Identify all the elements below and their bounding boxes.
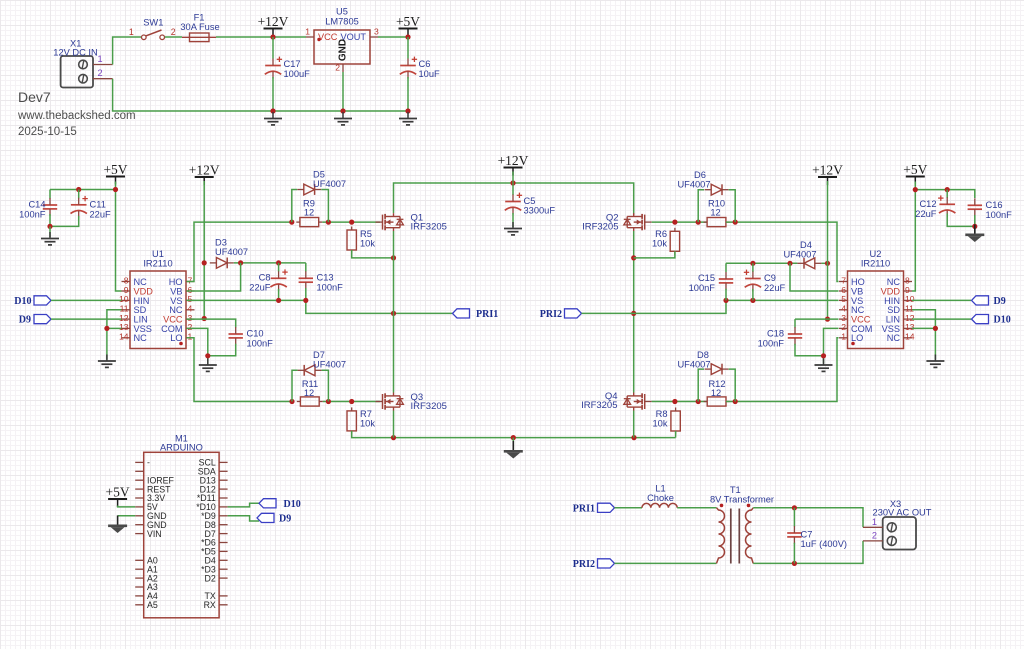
wire U1 HO to R9 xyxy=(187,222,291,281)
svg-text:NC: NC xyxy=(887,277,901,287)
capacitor C12 22uF xyxy=(938,195,955,217)
module M1 ARDUINO xyxy=(135,434,227,618)
wire C17 to ground rail xyxy=(272,77,274,111)
switch SW1 xyxy=(129,18,176,40)
ground (bridge rail) xyxy=(504,441,523,459)
ground (C6) xyxy=(399,112,417,125)
svg-text:IRF3205: IRF3205 xyxy=(411,401,447,412)
transformer T1 8V Transformer xyxy=(710,485,774,564)
wire C8 top lead xyxy=(278,263,280,272)
svg-text:R6: R6 xyxy=(655,229,667,239)
svg-text:12: 12 xyxy=(304,388,314,398)
svg-text:1: 1 xyxy=(305,27,310,37)
wire Arduino D9 to flag xyxy=(228,516,259,521)
wire Q4 gate to R12 xyxy=(652,401,707,403)
wire +12V vertical to U1 VCC xyxy=(203,181,205,319)
wire C6 to ground rail xyxy=(407,77,409,111)
junction C8 bottom xyxy=(276,298,281,303)
junction D5 cathode / R9 xyxy=(326,220,331,225)
diode D5 UF4007 xyxy=(297,184,321,195)
fuse F1 30A xyxy=(180,13,219,42)
svg-text:C6: C6 xyxy=(419,59,431,69)
wire bottom ground rail xyxy=(352,431,676,438)
wire D8 anode leg xyxy=(698,369,704,401)
junction D7 / R11 right xyxy=(326,399,331,404)
svg-text:+5V: +5V xyxy=(903,162,927,177)
wire U1 VSS to ground xyxy=(107,327,122,329)
capacitor C5 3300uF xyxy=(505,193,522,215)
junction VB tap xyxy=(238,260,243,265)
diode D3 UF4007 xyxy=(210,258,234,269)
svg-text:+12V: +12V xyxy=(189,163,220,178)
svg-text:8: 8 xyxy=(905,275,910,285)
svg-text:R5: R5 xyxy=(360,229,372,239)
svg-text:D10: D10 xyxy=(14,296,31,307)
power +5V (top) xyxy=(396,14,420,37)
svg-text:PRI1: PRI1 xyxy=(573,503,595,514)
node PRI1 (bridge left) xyxy=(453,309,499,320)
svg-text:GND: GND xyxy=(338,39,349,61)
node D9 (Arduino) xyxy=(257,513,291,524)
wire U2 HIN to D9 xyxy=(912,299,971,301)
ground (Arduino) xyxy=(108,516,127,534)
svg-text:100nF: 100nF xyxy=(247,339,274,349)
wire U2 LIN to D10 xyxy=(912,318,971,320)
svg-text:+5V: +5V xyxy=(396,14,420,29)
svg-text:VIN: VIN xyxy=(147,529,162,539)
svg-text:SW1: SW1 xyxy=(143,18,163,28)
junction R7 top xyxy=(349,399,354,404)
wire +5V down to U1 VDD xyxy=(116,182,122,292)
wire +12V vertical (right) xyxy=(827,181,829,319)
junction R6 top xyxy=(672,220,677,225)
wire D7 cathode leg xyxy=(292,370,298,401)
wire bootstrap caps to D4 xyxy=(726,262,797,264)
wire U1 VCC to C10 xyxy=(187,319,236,327)
svg-text:12: 12 xyxy=(711,388,721,398)
svg-text:1: 1 xyxy=(188,332,193,342)
svg-text:2: 2 xyxy=(335,63,340,73)
resistor R12 12 xyxy=(704,397,730,406)
wire U2 VS line xyxy=(726,299,839,301)
connector X1 12V DC IN xyxy=(53,39,112,88)
capacitor C9 22uF xyxy=(744,270,761,292)
svg-text:C16: C16 xyxy=(986,200,1003,210)
junction C9 bottom xyxy=(750,298,755,303)
wire U1 SD to ground xyxy=(107,310,122,360)
inductor L1 Choke xyxy=(642,484,677,508)
svg-text:D2: D2 xyxy=(205,573,216,583)
junction R5 top xyxy=(349,220,354,225)
wire C13 bottom lead xyxy=(305,288,307,300)
capacitor C16 100nF xyxy=(968,198,982,216)
wire C12 top lead xyxy=(946,190,948,198)
svg-text:C17: C17 xyxy=(284,59,301,69)
wire U2 COM to ground xyxy=(824,328,839,363)
wire C11 top lead xyxy=(78,190,80,199)
svg-text:1: 1 xyxy=(841,332,846,342)
diode D8 UF4007 xyxy=(705,364,729,375)
ground (U2 COM) xyxy=(815,359,833,372)
wire R11 to Q3 gate xyxy=(323,401,380,403)
junction +12V bus / C5 xyxy=(510,180,515,185)
svg-text:C18: C18 xyxy=(767,329,784,339)
capacitor C18 100nF xyxy=(788,327,802,345)
svg-text:10k: 10k xyxy=(360,419,375,429)
wire U1 COM to ground xyxy=(187,328,208,363)
capacitor C8 22uF xyxy=(270,269,287,291)
connector X3 230V AC OUT xyxy=(863,499,932,550)
diode D7 UF4007 xyxy=(298,365,322,376)
svg-text:2: 2 xyxy=(97,68,102,78)
svg-text:1uF (400V): 1uF (400V) xyxy=(801,539,848,549)
svg-text:NC: NC xyxy=(134,277,148,287)
junction C16 gnd xyxy=(972,224,977,229)
capacitor C6 10uF xyxy=(400,57,417,79)
ground (U5) xyxy=(334,112,352,125)
wire C9 bottom lead xyxy=(752,289,754,300)
svg-text:100nF: 100nF xyxy=(317,283,344,293)
junction R6 bottom xyxy=(631,255,636,260)
svg-text:D10: D10 xyxy=(284,499,301,510)
wire L1 to T1 primary xyxy=(677,507,716,509)
svg-text:C11: C11 xyxy=(90,200,106,210)
junction Q3 source / rail xyxy=(391,435,396,440)
wire Arduino GND to ground xyxy=(118,515,136,517)
svg-text:D9: D9 xyxy=(279,513,291,524)
capacitor C11 22uF xyxy=(71,196,88,218)
wire C7 top lead xyxy=(793,508,795,527)
svg-text:100nF: 100nF xyxy=(19,210,46,220)
transistor Q1 IRF3205 xyxy=(376,213,447,233)
wire D3 cathode to bootstrap caps xyxy=(234,262,306,264)
junction D4 cathode / +12V xyxy=(825,261,830,266)
svg-text:D9: D9 xyxy=(19,315,31,326)
junction COM / C10 xyxy=(205,353,210,358)
op-amp/driver U2 IR2110 xyxy=(839,249,915,349)
wire T1 secondary bottom to X3 xyxy=(753,541,863,564)
junction D3 anode xyxy=(202,260,207,265)
svg-text:LO: LO xyxy=(170,333,182,343)
svg-text:10k: 10k xyxy=(652,239,667,249)
svg-text:22uF: 22uF xyxy=(764,283,786,293)
svg-text:1: 1 xyxy=(129,27,134,37)
svg-text:2025-10-15: 2025-10-15 xyxy=(18,126,77,138)
svg-text:ARDUINO: ARDUINO xyxy=(160,443,203,453)
wire D9 to U1 LIN xyxy=(51,318,122,320)
svg-text:100nF: 100nF xyxy=(986,210,1013,220)
junction +5V node (right) xyxy=(913,187,918,192)
svg-text:C12: C12 xyxy=(919,199,936,209)
junction rail / C6 gnd xyxy=(405,108,410,113)
svg-text:D6: D6 xyxy=(694,170,706,180)
power +12V (C5) xyxy=(498,153,529,176)
svg-text:30A Fuse: 30A Fuse xyxy=(180,22,219,32)
wire U2 VSS to ground xyxy=(912,327,935,329)
svg-text:NC: NC xyxy=(134,333,148,343)
junction C8 top xyxy=(276,260,281,265)
svg-text:C10: C10 xyxy=(247,329,264,339)
svg-text:D5: D5 xyxy=(313,170,325,180)
wire C8 bottom lead xyxy=(278,289,280,300)
junction rail / C17 gnd xyxy=(270,108,275,113)
wire VB tap to U1 VB xyxy=(187,263,241,291)
svg-text:22uF: 22uF xyxy=(915,209,937,219)
svg-text:UF4007: UF4007 xyxy=(313,360,346,370)
wire Q3 drain up to PRI1 xyxy=(393,313,395,392)
svg-text:UF4007: UF4007 xyxy=(313,179,346,189)
svg-text:8V Transformer: 8V Transformer xyxy=(710,494,774,504)
junction VCC line (right) xyxy=(825,317,830,322)
svg-text:C8: C8 xyxy=(259,273,271,283)
capacitor C17 100uF xyxy=(265,57,282,79)
wire C18 bottom to COM gnd xyxy=(795,344,824,356)
wire Arduino D10 to flag xyxy=(228,503,259,507)
ground (U1 VSS) xyxy=(98,355,116,368)
junction Q4 source / rail xyxy=(631,435,636,440)
svg-text:D9: D9 xyxy=(994,296,1006,307)
svg-text:IRF3205: IRF3205 xyxy=(411,222,447,233)
wire +5V to C12/C16 tops xyxy=(915,190,975,198)
wire T1 secondary top to X3 xyxy=(753,508,863,528)
wire Q1 source down xyxy=(393,231,395,313)
svg-text:+5V: +5V xyxy=(103,162,127,177)
svg-text:3: 3 xyxy=(374,27,379,37)
svg-text:12V DC IN: 12V DC IN xyxy=(53,48,97,58)
wire F1 to U5 VCC via +12V node xyxy=(216,36,306,38)
resistor R7 10k xyxy=(347,407,356,434)
power +12V (U1 VCC) xyxy=(189,163,220,186)
ground (C5) xyxy=(504,222,522,235)
svg-text:UF4007: UF4007 xyxy=(215,247,248,257)
junction C7 top xyxy=(792,505,797,510)
power +5V (Arduino) xyxy=(106,485,130,508)
svg-text:U5: U5 xyxy=(336,7,348,17)
junction rail / U5 gnd xyxy=(340,108,345,113)
junction +12V / C17 xyxy=(270,34,275,39)
junction C11 top xyxy=(76,187,81,192)
resistor R6 10k xyxy=(670,228,679,255)
node D10 (right) xyxy=(972,315,1011,326)
svg-text:UF4007: UF4007 xyxy=(677,180,710,190)
svg-text:C9: C9 xyxy=(764,273,776,283)
svg-text:C15: C15 xyxy=(698,273,715,283)
transistor Q2 IRF3205 xyxy=(582,213,652,233)
op-amp/driver U1 IR2110 xyxy=(119,249,195,349)
ground (C12/C16) xyxy=(965,225,984,243)
regulator U5 LM7805 xyxy=(305,7,379,73)
svg-text:7: 7 xyxy=(841,275,846,285)
wire C13 top lead xyxy=(305,263,307,272)
wire rail to ground stem xyxy=(512,438,514,449)
wire U2 SD to ground xyxy=(912,310,935,360)
wire Q2 source / Q4 drain column xyxy=(633,231,635,393)
svg-text:A5: A5 xyxy=(147,600,158,610)
junction VB tap (right) xyxy=(787,261,792,266)
diode D4 UF4007 xyxy=(797,258,821,269)
svg-text:+5V: +5V xyxy=(106,485,130,500)
svg-text:NC: NC xyxy=(887,333,901,343)
junction SD/VSS (right) xyxy=(933,326,938,331)
wire C15 bottom lead xyxy=(725,289,727,301)
svg-text:C13: C13 xyxy=(317,273,334,283)
wire C14/C11 bottoms xyxy=(50,214,79,226)
power +5V (U2 VDD) xyxy=(903,162,927,185)
svg-text:C14: C14 xyxy=(28,200,45,210)
power +5V (U1 VDD) xyxy=(103,162,127,185)
wire C15 top lead xyxy=(725,263,727,272)
resistor R11 12 xyxy=(297,397,323,406)
svg-text:-: - xyxy=(147,458,150,468)
junction C9 top xyxy=(750,261,755,266)
junction C12 top xyxy=(945,187,950,192)
ground (C14/C11) xyxy=(41,232,59,245)
svg-text:U1: U1 xyxy=(152,249,164,259)
wire D6 cathode leg xyxy=(729,190,736,222)
svg-text:14: 14 xyxy=(119,332,129,342)
svg-text:IRF3205: IRF3205 xyxy=(582,222,618,233)
junction D5 anode / R9 xyxy=(289,220,294,225)
wire C14 top lead xyxy=(49,190,51,199)
wire PRI1 to L1 xyxy=(615,507,643,509)
wire R9 to Q1 gate xyxy=(322,221,380,223)
wire C9 top lead xyxy=(752,263,754,272)
wire to ground (C16) xyxy=(974,226,976,232)
junction D7 / R11 left xyxy=(289,399,294,404)
wire +5V down to C6 xyxy=(407,37,409,59)
svg-text:3300uF: 3300uF xyxy=(524,206,556,216)
svg-text:UF4007: UF4007 xyxy=(677,360,710,370)
junction R8 top xyxy=(672,399,677,404)
svg-text:22uF: 22uF xyxy=(90,210,112,220)
wire VB tap to U2 VB xyxy=(790,263,839,291)
wire U1 VS / PRI1 net xyxy=(187,300,453,313)
ground (U1 COM) xyxy=(199,359,217,372)
node D9 (right) xyxy=(972,296,1006,307)
svg-text:D8: D8 xyxy=(697,350,709,360)
junction C13 bottom xyxy=(303,298,308,303)
svg-text:10uF: 10uF xyxy=(419,69,441,79)
svg-text:22uF: 22uF xyxy=(249,283,271,293)
svg-text:12: 12 xyxy=(304,208,314,218)
junction D6 cathode / R10 xyxy=(733,220,738,225)
svg-text:PRI2: PRI2 xyxy=(540,309,562,320)
wire +5V down to U2 VDD xyxy=(912,182,915,292)
junction PRI2 node xyxy=(631,311,636,316)
wire D8 cathode leg xyxy=(729,369,736,401)
wire R5 bottom to Q1 source xyxy=(352,250,394,258)
wire to ground (C14) xyxy=(49,226,51,237)
junction COM / C18 (right) xyxy=(821,353,826,358)
transistor Q4 IRF3205 xyxy=(581,391,652,411)
wire X1 pin2 ground rail xyxy=(113,79,408,111)
svg-text:8: 8 xyxy=(124,275,129,285)
junction +5V / C6 xyxy=(405,34,410,39)
wire PRI2 to T1 primary xyxy=(615,562,717,564)
capacitor C10 100nF xyxy=(229,327,243,345)
svg-text:LM7805: LM7805 xyxy=(325,17,359,27)
junction Q1 source / Q3 drain / PRI1 xyxy=(391,311,396,316)
diode D6 UF4007 xyxy=(705,184,729,195)
wire D5 cathode leg xyxy=(321,190,328,223)
svg-text:2: 2 xyxy=(171,27,176,37)
wire U5 VOUT to +5V xyxy=(378,36,408,38)
svg-text:1: 1 xyxy=(872,517,877,527)
svg-text:1: 1 xyxy=(97,54,102,64)
wire C10 bottom to COM gnd xyxy=(208,344,236,356)
junction +5V node xyxy=(113,187,118,192)
wire X1 pin1 to SW1 xyxy=(113,37,141,65)
svg-text:D3: D3 xyxy=(215,238,227,248)
svg-text:IR2110: IR2110 xyxy=(143,259,172,269)
junction D6 anode / R10 xyxy=(696,220,701,225)
svg-text:+12V: +12V xyxy=(498,153,529,168)
junction C15 bottom xyxy=(723,298,728,303)
svg-text:www.thebackshed.com: www.thebackshed.com xyxy=(17,110,136,122)
wire C18 top lead xyxy=(794,319,796,327)
node D10 (Arduino) xyxy=(259,499,301,510)
wire D7 anode leg xyxy=(322,370,329,401)
node PRI2 (bridge right) xyxy=(540,309,582,320)
wire Q3 source to rail xyxy=(393,411,395,438)
node PRI1 (output) xyxy=(573,503,615,514)
capacitor C13 100nF xyxy=(299,271,313,289)
junction D8 cathode / R12 xyxy=(733,399,738,404)
wire +12V to C5 xyxy=(512,172,514,196)
svg-text:Choke: Choke xyxy=(647,493,674,503)
wire D5 anode leg xyxy=(292,190,297,223)
node D10 (left) xyxy=(14,296,51,307)
resistor R8 10k xyxy=(671,408,680,435)
svg-text:14: 14 xyxy=(905,332,915,342)
wire U2 VCC line xyxy=(795,318,839,320)
svg-text:F1: F1 xyxy=(194,13,205,23)
svg-text:VCC: VCC xyxy=(318,32,338,42)
wire U1 LO to R11 xyxy=(187,338,291,402)
svg-text:IR2110: IR2110 xyxy=(861,259,890,269)
wire R12 to U2 LO xyxy=(726,338,839,402)
resistor R5 10k xyxy=(347,227,356,254)
svg-text:230V AC OUT: 230V AC OUT xyxy=(873,508,932,518)
svg-text:R7: R7 xyxy=(360,409,372,419)
svg-text:PRI1: PRI1 xyxy=(476,309,498,320)
wire U5 GND to rail xyxy=(342,72,344,111)
wire +12V drain bus Q1-Q2 xyxy=(394,183,634,215)
wire +12V down to C17 xyxy=(272,37,274,59)
ground (C17) xyxy=(264,112,282,125)
wire R8 bottom to rail xyxy=(675,431,677,438)
junction D8 anode / R12 xyxy=(696,399,701,404)
wire D4 to +12V xyxy=(821,262,827,264)
svg-text:HO: HO xyxy=(169,277,183,287)
svg-text:D7: D7 xyxy=(313,350,325,360)
junction SD/VSS xyxy=(104,326,109,331)
svg-text:12: 12 xyxy=(710,208,720,218)
capacitor C7 1uF 400V xyxy=(787,526,801,544)
svg-text:100nF: 100nF xyxy=(758,339,785,349)
wire R10 to U2 HO xyxy=(726,222,839,281)
svg-text:10k: 10k xyxy=(360,239,375,249)
svg-text:+12V: +12V xyxy=(812,163,843,178)
wire C12/C16 bottoms xyxy=(947,214,975,227)
svg-text:HO: HO xyxy=(851,277,865,287)
capacitor C15 100nF xyxy=(719,272,733,290)
junction VCC line xyxy=(202,316,207,321)
resistor R10 12 xyxy=(704,218,730,227)
svg-text:IRF3205: IRF3205 xyxy=(581,400,617,411)
svg-text:C5: C5 xyxy=(524,196,536,206)
svg-text:100nF: 100nF xyxy=(689,283,716,293)
